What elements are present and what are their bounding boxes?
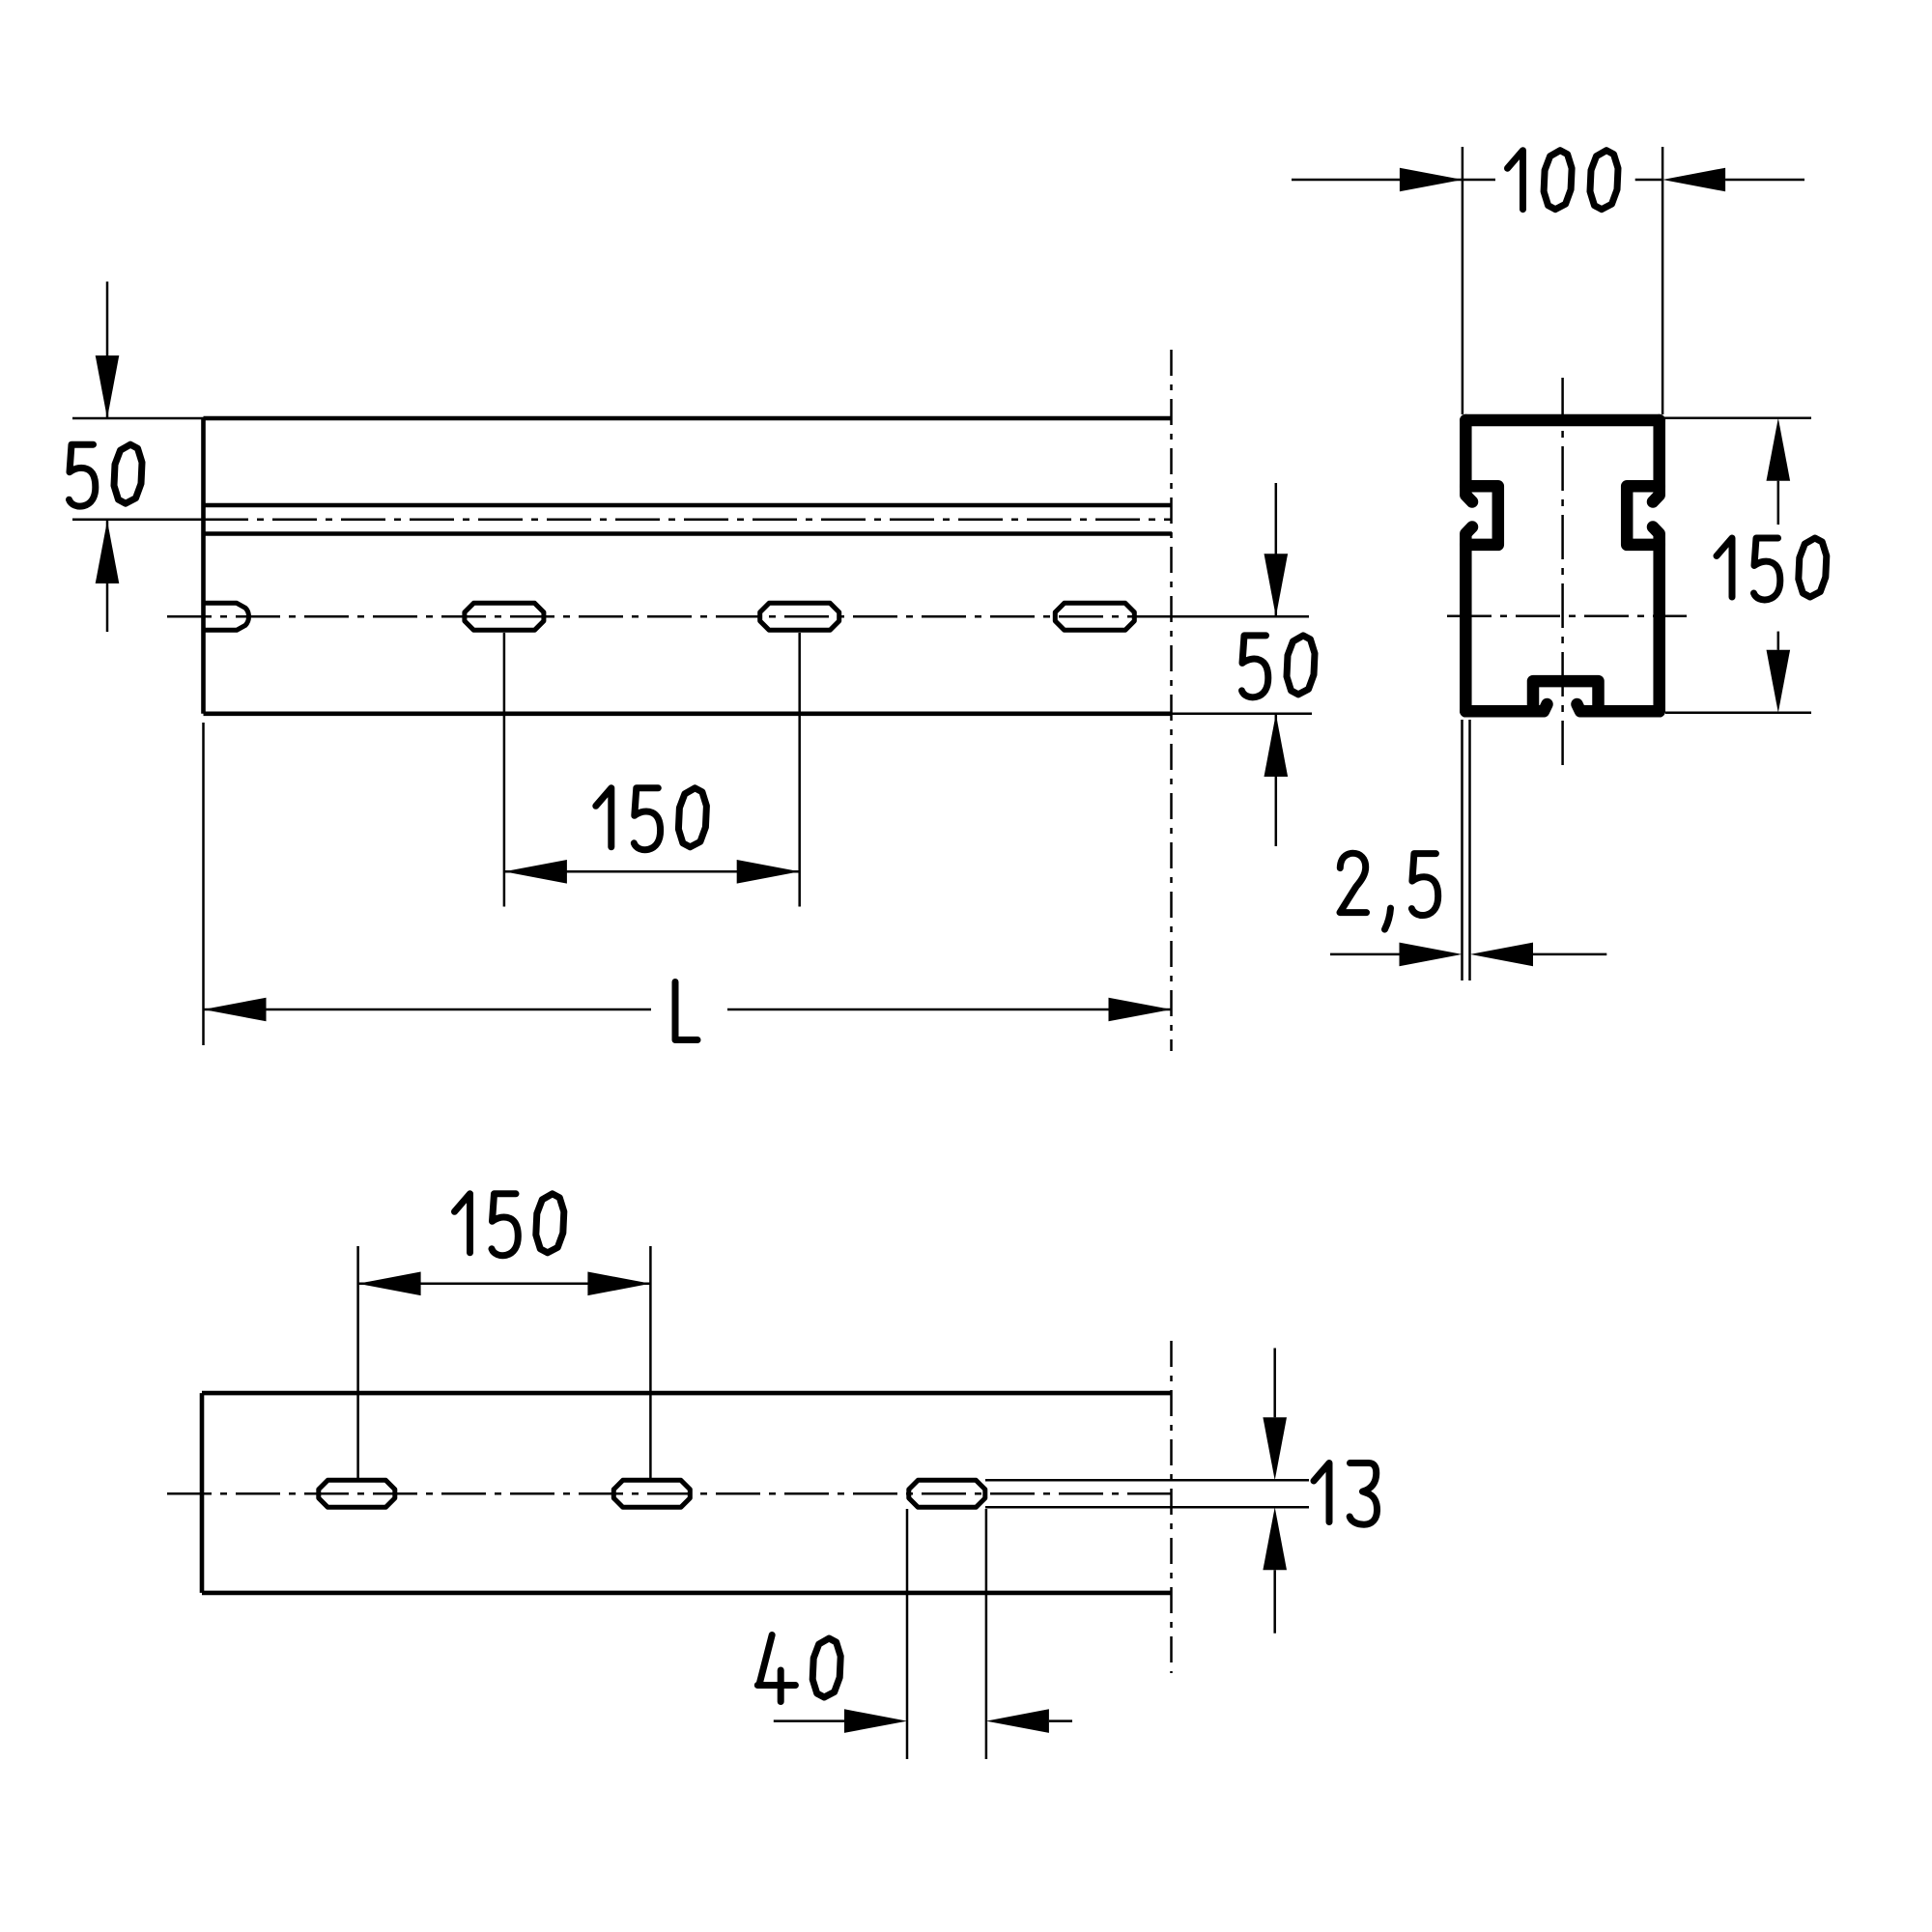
groove lower line [206, 531, 1173, 536]
slot 2 [760, 603, 839, 630]
section bottom groove bump [1533, 681, 1599, 711]
text 150 [1717, 538, 1732, 597]
dim line right part [727, 1009, 1172, 1011]
ext line bottom edge right [1172, 713, 1312, 716]
arrow left [358, 1272, 421, 1296]
text 150 [596, 788, 611, 847]
dim line middle stub [1463, 179, 1495, 182]
dim line lower [1273, 1570, 1276, 1633]
dim line left [1292, 179, 1463, 182]
arrow right [1400, 943, 1463, 967]
arrow down [1767, 650, 1791, 713]
ext line left [906, 1509, 909, 1759]
ext line top [1663, 416, 1811, 419]
section horizontal centerline [1447, 615, 1687, 618]
break line side view [1170, 350, 1173, 1051]
dim line upper [1777, 481, 1780, 525]
bottom slot 3 [909, 1480, 985, 1507]
arrow right [587, 1272, 650, 1296]
bottom slot 1 [319, 1480, 395, 1507]
section vertical centerline [1561, 378, 1564, 773]
rail top edge [204, 416, 1173, 421]
section bottom wall right segment with curl [1577, 704, 1660, 711]
ext line slot2 [649, 1246, 652, 1478]
dim line lower segment [106, 521, 109, 632]
bottom view bottom edge [202, 1591, 1172, 1596]
ext line left [1462, 147, 1464, 414]
ext line slot2 [798, 633, 801, 907]
rail left edge [201, 418, 206, 714]
arrow right [737, 860, 800, 884]
ext line groove center [72, 519, 204, 522]
dim line upper [1273, 1349, 1276, 1418]
slot row centerline [167, 615, 1137, 618]
ext line slot1 [356, 1246, 359, 1478]
section left groove hook [1465, 486, 1498, 545]
bottom view left edge [200, 1393, 205, 1593]
ext line inner [1468, 720, 1471, 980]
arrow down [96, 355, 120, 418]
text 50 [70, 444, 96, 506]
dim line [358, 1283, 651, 1286]
arrow left end [204, 998, 267, 1022]
section right wall lower with lip curl [1653, 527, 1660, 712]
slot 3 [1055, 603, 1134, 630]
dim line upper segment [106, 282, 109, 419]
text L [675, 982, 697, 1040]
arrow left [986, 1709, 1049, 1733]
bottom view centerline [167, 1492, 1175, 1495]
dim line upper [1275, 483, 1278, 616]
arrow down [1264, 554, 1289, 616]
arrow down [1263, 1417, 1287, 1480]
arrow right at left ext [1400, 168, 1463, 192]
text 50 [1242, 636, 1268, 697]
ext line bottom [1665, 712, 1811, 715]
ext line top [985, 1479, 1309, 1482]
slot 1 [465, 603, 544, 630]
ext line right [1662, 147, 1664, 414]
dim line right [1049, 1719, 1072, 1722]
section bottom wall left segment with curl [1465, 704, 1547, 711]
arrow left at right ext [1662, 168, 1725, 192]
arrow left [504, 860, 567, 884]
section left wall upper with lip curl [1465, 420, 1472, 502]
text 2,5 [1340, 853, 1367, 912]
dim line left [774, 1719, 844, 1722]
text 40 [757, 1635, 795, 1702]
section right wall upper with lip curl [1653, 420, 1660, 502]
bottom view top edge [202, 1391, 1172, 1396]
half slot at left edge [204, 603, 249, 630]
arrow left [1470, 943, 1533, 967]
arrow up [1263, 1507, 1287, 1570]
break line bottom view [1170, 1341, 1173, 1673]
text 150 [455, 1194, 470, 1253]
section top wall [1465, 414, 1659, 427]
section left wall lower with lip curl [1465, 527, 1472, 712]
dim line [504, 870, 800, 873]
arrow right [844, 1709, 907, 1733]
groove centerline [204, 519, 1172, 522]
dim line lower [1275, 714, 1278, 846]
dim line right stub [1635, 179, 1662, 182]
section right groove hook [1627, 486, 1660, 545]
arrow up [1264, 714, 1289, 777]
ext line left [202, 723, 205, 1045]
arrow up [1767, 418, 1791, 481]
groove upper line [206, 503, 1173, 508]
ext line outer [1461, 720, 1463, 980]
ext line bottom [985, 1506, 1309, 1509]
ext line slot1 [503, 633, 506, 907]
dim line left [1330, 953, 1400, 956]
text 13 [1314, 1463, 1329, 1522]
ext line slot centerline right [1137, 615, 1309, 618]
ext line top [72, 417, 204, 420]
arrow up [96, 521, 120, 583]
arrow right end [1109, 998, 1172, 1022]
bottom slot 2 [613, 1480, 690, 1507]
rail bottom edge [204, 711, 1173, 716]
dim line right tail [1725, 179, 1804, 182]
ext line right [985, 1509, 988, 1759]
dim line right [1533, 953, 1606, 956]
text 100 [1508, 151, 1523, 210]
dim line lower [1777, 632, 1780, 650]
dim line left part [204, 1009, 652, 1011]
